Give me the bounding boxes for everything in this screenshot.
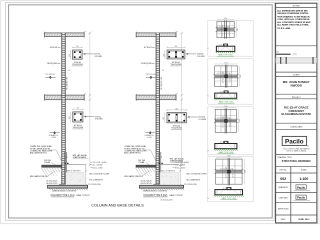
svg-text:03-Y12-07-25: 03-Y12-07-25 bbox=[46, 183, 57, 185]
base plan detail 1 dimensions bbox=[217, 19, 234, 21]
svg-text:DATE: DATE bbox=[281, 218, 287, 221]
svg-text:CONJ. WITH ALL OTHER DRGS.: CONJ. WITH ALL OTHER DRGS. bbox=[277, 18, 310, 21]
column C2 section A-A rebar dots bbox=[168, 51, 170, 53]
column C1 first floor level marker bbox=[49, 76, 52, 79]
column C2 section B-B rebar dots bbox=[168, 114, 170, 116]
svg-text:CIVIL / STRUCTURAL ENGINEERS: CIVIL / STRUCTURAL ENGINEERS bbox=[283, 148, 310, 151]
base plan detail 4 footing plan bbox=[216, 159, 242, 184]
svg-text:NWODO: NWODO bbox=[291, 84, 303, 88]
base plan detail 4 viewport box bbox=[208, 156, 253, 202]
base plan detail 4 dimensions bbox=[216, 156, 242, 158]
svg-text:1200: 1200 bbox=[240, 74, 242, 78]
svg-text:1200: 1200 bbox=[237, 28, 239, 32]
svg-text:1ST FLR LVL: 1ST FLR LVL bbox=[146, 74, 156, 76]
svg-text:01-Y12-05@150 B: 01-Y12-05@150 B bbox=[220, 168, 233, 170]
column C1 section A-A top dimension bbox=[73, 46, 83, 48]
svg-text:a: a bbox=[85, 31, 86, 33]
svg-text:01: 01 bbox=[68, 70, 70, 72]
svg-text:Pacilo: Pacilo bbox=[297, 185, 305, 189]
svg-text:4Y12: 4Y12 bbox=[223, 188, 226, 190]
svg-text:450: 450 bbox=[175, 46, 178, 48]
base plan detail 3 dimensions bbox=[215, 107, 236, 109]
svg-text:AND LATERITE FILL: AND LATERITE FILL bbox=[30, 152, 47, 155]
svg-text:CONSULTANT: CONSULTANT bbox=[290, 126, 303, 129]
svg-text:BASE TYPE B2: BASE TYPE B2 bbox=[170, 194, 183, 197]
column C2 section B-B leader arrow and note bbox=[187, 116, 198, 118]
svg-text:25-Y12-05-25 B: 25-Y12-05-25 B bbox=[161, 200, 174, 202]
base B2 kicker bars bbox=[159, 163, 161, 165]
svg-text:NOTES: NOTES bbox=[293, 5, 301, 7]
svg-text:01-Y12-05@150 B: 01-Y12-05@150 B bbox=[217, 118, 230, 120]
column C2 column elevation ladder bbox=[156, 33, 160, 185]
svg-text:DRG No.: DRG No. bbox=[279, 170, 287, 172]
svg-text:N.G.L. -0.900: N.G.L. -0.900 bbox=[92, 167, 102, 169]
base B2 yard slab bbox=[136, 165, 156, 167]
svg-text:Pacilo: Pacilo bbox=[297, 196, 305, 200]
svg-text:02-Y12-06@150: 02-Y12-06@150 bbox=[222, 24, 224, 36]
column C1 section B-B top dimension bbox=[73, 108, 83, 110]
column C1 section A-A rebar dots bbox=[74, 51, 76, 53]
svg-text:Y8-02@200 LKS: Y8-02@200 LKS bbox=[161, 76, 163, 90]
svg-text:Y.SLAB: Y.SLAB bbox=[44, 161, 51, 164]
svg-text:BASE TYPE B1: BASE TYPE B1 bbox=[76, 194, 89, 197]
svg-text:01-Y12-05@150 B: 01-Y12-05@150 B bbox=[217, 26, 230, 28]
svg-text:GL: GL bbox=[277, 51, 279, 53]
svg-text:Y8-02@200: Y8-02@200 bbox=[47, 63, 59, 65]
svg-text:BILL DIMENSION: BILL DIMENSION bbox=[187, 179, 201, 181]
svg-text:225: 225 bbox=[163, 54, 165, 57]
base plan detail 1 elevation bbox=[223, 44, 227, 46]
svg-text:#3: #3 bbox=[207, 150, 209, 152]
column C1 section A-A stirrup link bbox=[74, 51, 81, 58]
svg-text:DRAWN BY: DRAWN BY bbox=[278, 186, 289, 189]
base plan detail 2 viewport box bbox=[208, 59, 253, 104]
base plan detail 1 column core bbox=[224, 28, 227, 31]
column C1 level texts bbox=[90, 161, 92, 163]
column C2 section A-A left dimension bbox=[164, 50, 166, 59]
svg-text:225: 225 bbox=[163, 117, 165, 120]
svg-text:UNLESS OTHERWISE STATED.: UNLESS OTHERWISE STATED. bbox=[277, 12, 309, 15]
title block key diagram ground line bbox=[276, 53, 290, 55]
svg-text:1200: 1200 bbox=[224, 63, 228, 65]
svg-text:+0.450: +0.450 bbox=[147, 137, 152, 139]
base plan detail 4 green blinding hatch bbox=[214, 195, 216, 197]
svg-text:SCALE: SCALE bbox=[301, 169, 308, 172]
svg-text:#1: #1 bbox=[207, 48, 209, 50]
title block frame bbox=[276, 3, 317, 223]
column C2 section B-B outline bbox=[167, 113, 186, 123]
svg-text:BASE TYPE 3 (B3): BASE TYPE 3 (B3) bbox=[219, 151, 234, 154]
svg-text:BASE TYPE 2 (B2): BASE TYPE 2 (B2) bbox=[219, 100, 234, 103]
svg-text:50MM BLINDING CONCRETE: 50MM BLINDING CONCRETE bbox=[143, 190, 168, 192]
base plan detail 3 viewport box bbox=[208, 107, 253, 155]
svg-text:ALL REINF. HIGH YIELD STEEL: ALL REINF. HIGH YIELD STEEL bbox=[277, 24, 309, 27]
drawn by signature logo bbox=[296, 185, 306, 189]
svg-text:1200: 1200 bbox=[224, 106, 228, 108]
svg-text:1ST FLR LVL: 1ST FLR LVL bbox=[46, 74, 56, 76]
column C2 top slab band bbox=[136, 33, 176, 37]
column C1 section B-B left dimension bbox=[70, 112, 72, 122]
column C2 mid slab band bbox=[136, 95, 176, 100]
column C2 section A-A outline bbox=[167, 50, 185, 59]
svg-text:01-Y12-05@150 B: 01-Y12-05@150 B bbox=[217, 73, 230, 75]
base plan detail 3 footing plan bbox=[215, 109, 236, 132]
column C1 mid slab band bbox=[45, 95, 85, 100]
svg-text:CHECKED: CHECKED bbox=[279, 197, 289, 199]
column C2 storey dimension line bbox=[181, 33, 183, 165]
base plan detail 2 column core bbox=[225, 75, 228, 78]
column C2 section B-B left dimension bbox=[164, 113, 166, 123]
svg-text:a: a bbox=[177, 31, 178, 33]
svg-text:TO B.S. 4449.: TO B.S. 4449. bbox=[277, 27, 291, 30]
svg-text:03-Y12-07-25: 03-Y12-07-25 bbox=[141, 183, 152, 185]
column C2 section A-A stirrup link bbox=[168, 51, 183, 58]
svg-text:4Y12: 4Y12 bbox=[219, 44, 222, 46]
base B1 vertical dim at base bbox=[85, 164, 87, 188]
base B2 excavation hatch block bbox=[160, 173, 178, 186]
svg-text:Y.SLAB: Y.SLAB bbox=[138, 161, 145, 164]
column C1 section A-A outline bbox=[73, 50, 83, 59]
svg-text:COLUMN: COLUMN bbox=[198, 119, 206, 121]
base plan detail 2 footing plan bbox=[215, 66, 238, 87]
column C1 section A-A leader arrow and note bbox=[83, 53, 94, 55]
svg-text:225: 225 bbox=[76, 46, 79, 48]
svg-text:G.L. +/-0.000: G.L. +/-0.000 bbox=[92, 164, 102, 166]
column C2 section A-A leader arrow and note bbox=[186, 53, 197, 55]
svg-text:BASE TYPE 4 (B4): BASE TYPE 4 (B4) bbox=[222, 197, 237, 200]
svg-text:4Y16-01: 4Y16-01 bbox=[50, 47, 58, 49]
svg-text:Y8-02@200 LKS: Y8-02@200 LKS bbox=[67, 76, 69, 90]
svg-text:+0.450: +0.450 bbox=[51, 137, 56, 139]
svg-text:02: 02 bbox=[67, 156, 69, 158]
title block key diagram strip footing band bbox=[276, 58, 317, 63]
svg-text:225: 225 bbox=[69, 54, 71, 57]
svg-text:(TYP): (TYP) bbox=[293, 54, 297, 56]
svg-text:01: 01 bbox=[162, 70, 164, 72]
checked signature logo bbox=[296, 195, 306, 199]
svg-text:1200: 1200 bbox=[239, 119, 241, 123]
Pacilo logo box bbox=[282, 136, 306, 145]
column C1 section B-B stirrup link bbox=[74, 113, 82, 121]
svg-text:02-Y12-06@150: 02-Y12-06@150 bbox=[222, 116, 224, 128]
svg-text:CLIENT: CLIENT bbox=[293, 75, 301, 77]
base plan detail 3 green blinding hatch bbox=[214, 149, 216, 151]
column C1 section B-B leader arrow and note bbox=[84, 116, 95, 118]
base plan detail 3 column core bbox=[225, 120, 228, 123]
svg-text:#2: #2 bbox=[207, 95, 209, 97]
svg-text:BASE TYPE 1 (B1): BASE TYPE 1 (B1) bbox=[218, 54, 233, 57]
base B1 yard slab bbox=[42, 165, 62, 167]
svg-text:JUNE, 2021: JUNE, 2021 bbox=[298, 219, 310, 221]
svg-text:1200: 1200 bbox=[227, 156, 231, 158]
svg-text:MIN. CONCRETE COVER: MIN. CONCRETE COVER bbox=[89, 174, 110, 176]
base plan detail 2 elevation bbox=[224, 91, 228, 93]
column C2 section B-B top dimension bbox=[167, 109, 186, 111]
base plan detail 4 column core bbox=[228, 170, 231, 173]
svg-text:25-Y12-05-25 B: 25-Y12-05-25 B bbox=[88, 184, 101, 186]
svg-text:PROJECT: PROJECT bbox=[292, 97, 302, 99]
svg-text:APPROVED: APPROVED bbox=[278, 207, 289, 210]
svg-text:a: a bbox=[85, 93, 86, 95]
base plan detail 1 viewport box bbox=[208, 21, 253, 57]
base plan detail 1 green blinding hatch bbox=[216, 52, 218, 54]
drawing border outer line bbox=[6, 3, 275, 221]
column C2 section B-B stirrup link bbox=[168, 114, 185, 122]
svg-text:Y8-02@200: Y8-02@200 bbox=[141, 63, 153, 65]
svg-text:G.BEAM LVL: G.BEAM LVL bbox=[49, 134, 58, 137]
svg-text:ELSHAMMAH ESTATE: ELSHAMMAH ESTATE bbox=[281, 112, 311, 116]
base B1 starter bars bbox=[64, 152, 66, 184]
base B2 starter bars bbox=[158, 152, 160, 184]
svg-text:ltd.: ltd. bbox=[307, 145, 310, 148]
svg-text:COLUMN AND BASE DETAILS: COLUMN AND BASE DETAILS bbox=[91, 204, 144, 208]
svg-text:1200: 1200 bbox=[245, 170, 247, 174]
svg-text:1200: 1200 bbox=[224, 18, 228, 20]
column C2 level texts bbox=[173, 161, 175, 163]
svg-text:002: 002 bbox=[280, 177, 286, 181]
svg-text:BILL DIMENSION: BILL DIMENSION bbox=[89, 179, 103, 181]
base plan detail 2 green blinding hatch bbox=[214, 99, 216, 101]
svg-text:4Y12: 4Y12 bbox=[220, 91, 223, 93]
svg-text:STRUCTURAL DRAWINGS: STRUCTURAL DRAWINGS bbox=[282, 160, 311, 163]
column C2 ground beam level marker bbox=[149, 131, 152, 134]
svg-text:450: 450 bbox=[175, 108, 178, 110]
base B2 vertical dim at base bbox=[179, 164, 181, 188]
svg-text:a: a bbox=[177, 93, 178, 95]
base plan detail 3 elevation bbox=[224, 141, 228, 143]
base B1 ground line right bbox=[65, 164, 85, 166]
base B1 excavation hatch block bbox=[66, 173, 84, 186]
svg-text:50MM BLINDING CONCRETE: 50MM BLINDING CONCRETE bbox=[52, 190, 77, 192]
svg-text:Pacilo: Pacilo bbox=[285, 138, 304, 145]
svg-text:#4: #4 bbox=[207, 198, 209, 200]
svg-text:02-Y12-06@150: 02-Y12-06@150 bbox=[225, 167, 227, 179]
base plan detail 4 elevation bbox=[227, 187, 231, 189]
table vertical divider bbox=[290, 166, 292, 223]
base B1 footing slab bbox=[48, 185, 88, 188]
svg-text:COLUMN: COLUMN bbox=[197, 56, 205, 58]
svg-text:02-Y12-06@150: 02-Y12-06@150 bbox=[223, 71, 225, 83]
svg-text:M.S. 4" STR FTG: M.S. 4" STR FTG bbox=[162, 170, 176, 172]
column C2 first floor level marker bbox=[149, 76, 152, 79]
svg-text:4Y16-01: 4Y16-01 bbox=[144, 47, 152, 49]
svg-text:225: 225 bbox=[77, 108, 80, 110]
base B2 footing slab bbox=[140, 185, 184, 188]
svg-text:DRAWING TITLE:: DRAWING TITLE: bbox=[277, 156, 292, 159]
base plan detail 2 dimensions bbox=[215, 63, 238, 65]
svg-text:G.BEAM LVL: G.BEAM LVL bbox=[145, 134, 154, 137]
column C1 top slab band bbox=[45, 33, 85, 37]
svg-text:1:100: 1:100 bbox=[299, 177, 308, 181]
svg-text:4Y12: 4Y12 bbox=[220, 142, 223, 144]
svg-text:AND LATERITE FILL: AND LATERITE FILL bbox=[124, 152, 141, 155]
base B1 kicker bars bbox=[64, 163, 66, 165]
svg-text:COLUMN: COLUMN bbox=[95, 119, 103, 121]
column C1 section B-B rebar dots bbox=[74, 113, 76, 115]
column C1 column elevation ladder bbox=[62, 33, 66, 185]
column C2 section A-A top dimension bbox=[167, 46, 185, 48]
svg-text:STARTER BARS: STARTER BARS bbox=[73, 156, 87, 159]
column C1 ground beam level marker bbox=[53, 131, 56, 134]
column C1 storey dimension line bbox=[89, 33, 91, 165]
svg-text:225: 225 bbox=[69, 116, 71, 119]
svg-text:25-Y12-05-25 B: 25-Y12-05-25 B bbox=[184, 184, 197, 186]
svg-text:COLUMN: COLUMN bbox=[94, 56, 102, 58]
column C1 section A-A left dimension bbox=[69, 50, 71, 59]
drawing border inner line bbox=[9, 5, 273, 218]
base plan detail 1 footing plan bbox=[217, 21, 234, 37]
column C1 section B-B outline bbox=[73, 112, 83, 122]
svg-text:M.S. 4" STR FTG: M.S. 4" STR FTG bbox=[67, 170, 81, 172]
base B2 ground line right bbox=[160, 164, 180, 166]
svg-text:MIN. CONCRETE COVER: MIN. CONCRETE COVER bbox=[187, 174, 208, 176]
